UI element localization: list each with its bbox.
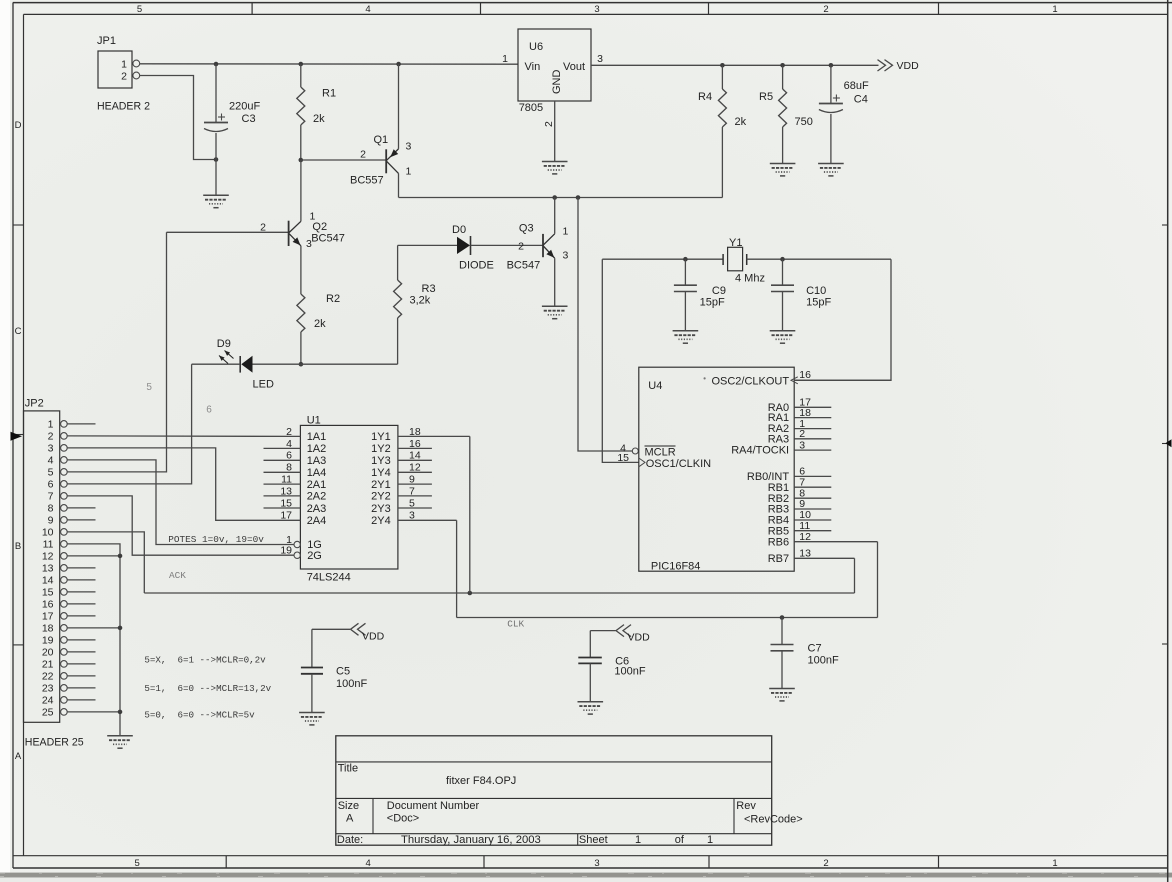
- svg-text:1: 1: [707, 834, 713, 846]
- svg-text:R5: R5: [759, 91, 773, 103]
- svg-text:RB6: RB6: [768, 536, 789, 548]
- svg-text:3: 3: [594, 4, 599, 15]
- svg-text:1A4: 1A4: [307, 467, 327, 479]
- svg-text:5: 5: [134, 858, 139, 869]
- svg-text:MCLR: MCLR: [645, 447, 676, 459]
- svg-text:2Y3: 2Y3: [371, 503, 391, 515]
- svg-text:2Y4: 2Y4: [371, 515, 391, 527]
- svg-text:1Y1: 1Y1: [371, 431, 391, 443]
- svg-text:Size: Size: [338, 800, 359, 812]
- svg-text:Q2: Q2: [312, 221, 327, 233]
- svg-text:2Y1: 2Y1: [371, 479, 391, 491]
- svg-text:Rev: Rev: [736, 800, 756, 812]
- svg-text:1A3: 1A3: [307, 455, 327, 467]
- svg-text:14: 14: [42, 574, 54, 586]
- svg-text:U6: U6: [529, 41, 543, 53]
- svg-text:68uF: 68uF: [844, 80, 869, 92]
- svg-text:2: 2: [48, 430, 54, 442]
- svg-text:Q3: Q3: [519, 223, 534, 235]
- svg-text:3: 3: [406, 141, 412, 153]
- svg-text:RA3: RA3: [768, 433, 789, 445]
- svg-text:74LS244: 74LS244: [307, 572, 351, 584]
- svg-text:POTES 1=0v, 19=0v: POTES 1=0v, 19=0v: [168, 534, 264, 545]
- svg-text:R1: R1: [322, 88, 336, 100]
- svg-text:BC547: BC547: [311, 233, 345, 245]
- svg-text:3: 3: [563, 250, 569, 262]
- svg-text:C9: C9: [712, 285, 726, 297]
- svg-text:5: 5: [146, 382, 152, 393]
- svg-text:21: 21: [42, 658, 54, 670]
- svg-text:25: 25: [42, 706, 54, 718]
- svg-text:4: 4: [365, 4, 370, 15]
- svg-text:2A1: 2A1: [307, 479, 327, 491]
- svg-text:Q1: Q1: [374, 134, 389, 146]
- svg-text:C5: C5: [336, 666, 350, 678]
- svg-text:2: 2: [799, 428, 805, 440]
- svg-text:C10: C10: [806, 285, 826, 297]
- svg-text:12: 12: [799, 531, 811, 543]
- svg-text:3,2k: 3,2k: [410, 295, 431, 307]
- svg-text:U4: U4: [648, 380, 662, 392]
- svg-text:3: 3: [594, 858, 599, 869]
- svg-text:A: A: [346, 813, 354, 825]
- svg-text:C: C: [15, 326, 22, 337]
- svg-text:17: 17: [42, 610, 54, 622]
- svg-text:Vin: Vin: [525, 61, 541, 73]
- svg-text:20: 20: [42, 646, 54, 658]
- svg-text:11: 11: [43, 538, 54, 550]
- svg-text:Document Number: Document Number: [387, 800, 480, 812]
- svg-text:1Y4: 1Y4: [371, 467, 391, 479]
- svg-text:Y1: Y1: [729, 237, 742, 249]
- svg-text:PIC16F84: PIC16F84: [651, 561, 701, 573]
- svg-text:19: 19: [42, 634, 54, 646]
- svg-text:13: 13: [799, 548, 811, 560]
- svg-text:fitxer F84.OPJ: fitxer F84.OPJ: [446, 775, 516, 787]
- svg-text:BC557: BC557: [350, 175, 384, 187]
- svg-text:2A3: 2A3: [307, 503, 327, 515]
- svg-text:7805: 7805: [519, 102, 543, 114]
- svg-text:2k: 2k: [314, 318, 326, 330]
- svg-text:4: 4: [48, 454, 54, 466]
- svg-text:C4: C4: [854, 94, 868, 106]
- svg-text:23: 23: [42, 682, 54, 694]
- svg-text:6: 6: [48, 478, 54, 490]
- svg-text:1A1: 1A1: [307, 431, 327, 443]
- svg-text:2: 2: [360, 149, 366, 161]
- svg-text:1: 1: [48, 418, 54, 430]
- svg-text:2Y2: 2Y2: [371, 491, 391, 503]
- svg-text:5: 5: [48, 466, 54, 478]
- svg-text:24: 24: [42, 694, 54, 706]
- svg-text:HEADER 2: HEADER 2: [97, 101, 150, 113]
- svg-text:Vout: Vout: [563, 61, 585, 73]
- svg-text:18: 18: [42, 622, 54, 634]
- svg-text:9: 9: [48, 514, 54, 526]
- svg-text:RB7: RB7: [768, 553, 789, 565]
- svg-text:VDD: VDD: [362, 630, 385, 642]
- svg-text:2k: 2k: [735, 116, 747, 128]
- svg-text:RA4/TOCKI: RA4/TOCKI: [731, 445, 789, 457]
- svg-text:CLK: CLK: [507, 619, 524, 630]
- svg-text:2: 2: [823, 4, 828, 15]
- svg-text:HEADER 25: HEADER 25: [25, 737, 84, 749]
- svg-text:LED: LED: [253, 379, 274, 391]
- svg-text:6: 6: [206, 405, 212, 416]
- svg-text:5=X, 6=1 -->MCLR=0,2v: 5=X, 6=1 -->MCLR=0,2v: [144, 655, 266, 666]
- svg-text:VDD: VDD: [628, 632, 651, 644]
- svg-text:VDD: VDD: [897, 60, 920, 72]
- svg-text:5: 5: [137, 4, 142, 15]
- svg-text:1Y2: 1Y2: [371, 443, 391, 455]
- svg-text:15pF: 15pF: [700, 297, 725, 309]
- svg-text:220uF: 220uF: [229, 101, 260, 113]
- svg-text:1: 1: [563, 226, 569, 238]
- svg-text:2k: 2k: [313, 113, 325, 125]
- svg-text:2: 2: [518, 241, 524, 253]
- svg-text:OSC1/CLKIN: OSC1/CLKIN: [646, 458, 711, 470]
- svg-text:15pF: 15pF: [806, 297, 831, 309]
- svg-text:C3: C3: [242, 113, 256, 125]
- svg-text:Thursday, January 16, 2003: Thursday, January 16, 2003: [401, 834, 541, 846]
- svg-text:<RevCode>: <RevCode>: [744, 814, 803, 826]
- svg-text:5=0, 6=0 -->MCLR=5v: 5=0, 6=0 -->MCLR=5v: [144, 710, 255, 721]
- svg-text:C7: C7: [808, 643, 822, 655]
- svg-text:1Y3: 1Y3: [371, 455, 391, 467]
- svg-text:1: 1: [1052, 4, 1057, 15]
- svg-text:15: 15: [617, 452, 629, 464]
- svg-text:D9: D9: [217, 338, 231, 350]
- svg-text:1: 1: [1052, 858, 1057, 869]
- svg-text:3: 3: [597, 53, 603, 65]
- svg-text:100nF: 100nF: [614, 666, 645, 678]
- svg-text:16: 16: [42, 598, 54, 610]
- svg-text:ACK: ACK: [169, 570, 186, 581]
- svg-text:GND: GND: [551, 70, 563, 95]
- svg-text:2: 2: [260, 222, 266, 234]
- svg-text:1A2: 1A2: [307, 443, 327, 455]
- svg-text:13: 13: [42, 562, 54, 574]
- svg-text:1: 1: [502, 53, 508, 65]
- svg-text:R4: R4: [698, 91, 712, 103]
- svg-text:3: 3: [48, 442, 54, 454]
- svg-text:JP2: JP2: [25, 398, 44, 410]
- svg-text:Sheet: Sheet: [579, 834, 608, 846]
- svg-text:7: 7: [48, 490, 54, 502]
- svg-text:12: 12: [42, 550, 54, 562]
- svg-text:10: 10: [42, 526, 54, 538]
- svg-text:B: B: [15, 541, 21, 552]
- svg-text:JP1: JP1: [97, 35, 116, 47]
- svg-text:750: 750: [795, 116, 813, 128]
- svg-text:2: 2: [823, 858, 828, 869]
- svg-text:U1: U1: [307, 415, 321, 427]
- svg-text:2: 2: [543, 121, 555, 127]
- svg-text:1: 1: [406, 166, 412, 178]
- svg-text:2: 2: [121, 71, 127, 83]
- svg-text:4: 4: [366, 858, 371, 869]
- svg-text:D0: D0: [452, 224, 466, 236]
- svg-text:100nF: 100nF: [336, 678, 367, 690]
- svg-text:BC547: BC547: [507, 259, 541, 271]
- svg-text:5=1, 6=0 -->MCLR=13,2v: 5=1, 6=0 -->MCLR=13,2v: [144, 683, 271, 694]
- svg-text:1: 1: [635, 834, 641, 846]
- svg-text:8: 8: [48, 502, 54, 514]
- svg-text:Date:: Date:: [337, 834, 363, 846]
- svg-text:R3: R3: [422, 283, 436, 295]
- svg-text:<Doc>: <Doc>: [387, 813, 419, 825]
- svg-text:A: A: [15, 751, 22, 762]
- svg-text:R2: R2: [326, 293, 340, 305]
- svg-text:100nF: 100nF: [808, 654, 839, 666]
- svg-text:D: D: [15, 120, 22, 131]
- svg-text:DIODE: DIODE: [459, 259, 494, 271]
- svg-text:OSC2/CLKOUT: OSC2/CLKOUT: [711, 376, 789, 388]
- svg-text:1: 1: [121, 59, 127, 71]
- svg-text:3: 3: [799, 439, 805, 451]
- svg-text:4 Mhz: 4 Mhz: [735, 273, 765, 285]
- svg-text:2G: 2G: [307, 550, 322, 562]
- svg-text:of: of: [675, 834, 685, 846]
- svg-text:22: 22: [42, 670, 54, 682]
- svg-text:2A4: 2A4: [307, 515, 327, 527]
- svg-text:Title: Title: [338, 763, 358, 775]
- svg-text:3: 3: [306, 238, 312, 250]
- svg-text:15: 15: [42, 586, 54, 598]
- svg-text:2A2: 2A2: [307, 491, 327, 503]
- svg-text:16: 16: [799, 369, 811, 381]
